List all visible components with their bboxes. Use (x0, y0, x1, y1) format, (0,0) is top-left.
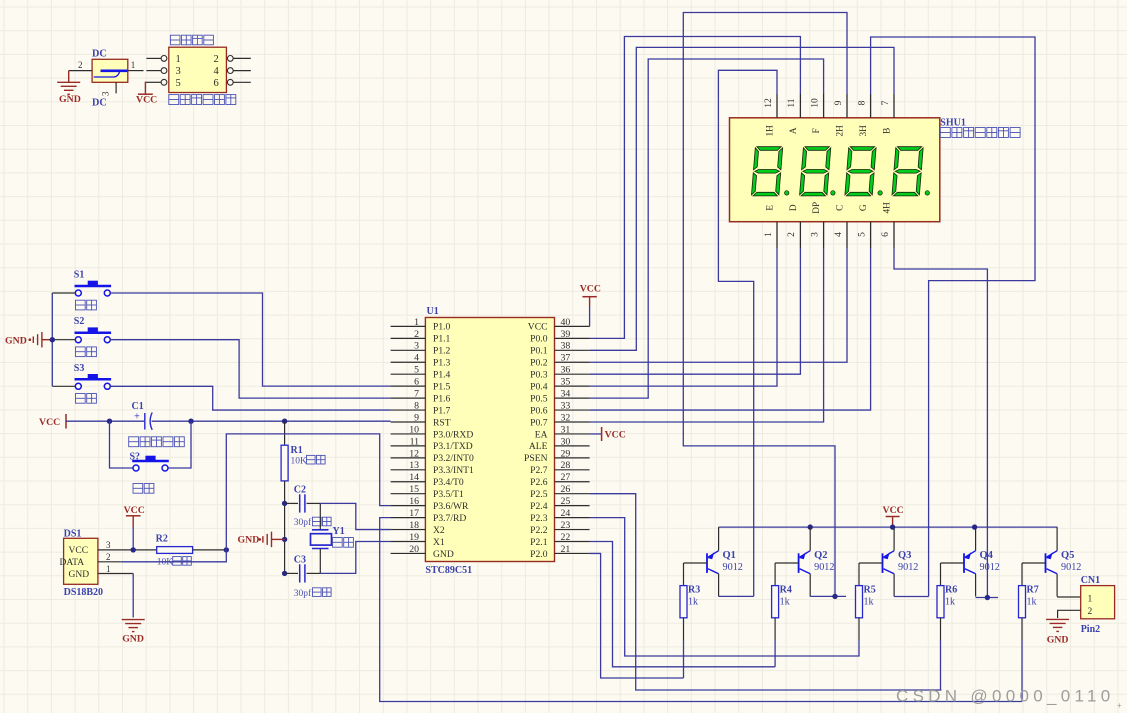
svg-text:1k: 1k (1027, 597, 1037, 608)
switch left pin 3 (146, 70, 161, 72)
svg-text:P1.2: P1.2 (433, 346, 451, 357)
pin 25 P2.4 (555, 505, 590, 507)
pin 15 P3.5/T1 (391, 493, 426, 495)
svg-text:P0.5: P0.5 (530, 393, 548, 404)
pin 4 P1.3 (391, 361, 426, 363)
pin 10 P3.0/RXD (391, 433, 426, 435)
wire D to P0.3 (590, 248, 801, 374)
display decimal point 2 (831, 191, 835, 195)
svg-text:P2.1: P2.1 (530, 537, 548, 548)
svg-text:4: 4 (834, 232, 844, 237)
svg-text:RST: RST (433, 417, 451, 428)
svg-text:EA: EA (535, 429, 548, 440)
wire RST node to pin9 (152, 420, 391, 422)
svg-text:3: 3 (106, 540, 111, 550)
svg-text:R4: R4 (780, 585, 792, 596)
pin 23 P2.2 (555, 529, 590, 531)
svg-text:9012: 9012 (1061, 562, 1081, 573)
pin 34 P0.5 (555, 397, 590, 399)
svg-text:10: 10 (810, 98, 820, 108)
switch left pin 1 (146, 57, 161, 59)
svg-text:1: 1 (176, 54, 181, 65)
svg-text:18: 18 (409, 520, 419, 531)
pin 35 P0.4 (555, 385, 590, 387)
svg-text:A: A (789, 127, 799, 134)
svg-text:9012: 9012 (898, 562, 918, 573)
wire ground rail of crystal caps (284, 503, 286, 573)
svg-text:2H: 2H (836, 125, 846, 137)
svg-text:32: 32 (561, 412, 571, 423)
pin 29 PSEN (555, 457, 590, 459)
transistor Q5 9012 (1045, 553, 1047, 573)
svg-text:P0.0: P0.0 (530, 334, 548, 345)
svg-text:7: 7 (881, 100, 891, 105)
pin 16 P3.6/WR (391, 505, 426, 507)
pin 14 P3.4/T0 (391, 481, 426, 483)
svg-text:1: 1 (1088, 595, 1093, 605)
pin 22 P2.1 (555, 541, 590, 543)
pushbutton S1 (75, 290, 81, 296)
wire Q3 collector to riser (894, 596, 929, 598)
svg-text:U1: U1 (427, 306, 439, 317)
pin 18 X2 (391, 529, 426, 531)
ground GND at CN1 (1046, 618, 1069, 620)
svg-text:F: F (812, 128, 822, 133)
svg-text:9012: 9012 (723, 562, 743, 573)
svg-text:VCC: VCC (124, 505, 145, 516)
svg-text:9012: 9012 (980, 562, 1000, 573)
svg-text:P1.1: P1.1 (433, 334, 451, 345)
pin 6 P1.5 (391, 385, 426, 387)
svg-text:P1.3: P1.3 (433, 358, 451, 369)
wire P2.5 to R6 (590, 494, 942, 690)
svg-text:14: 14 (409, 472, 419, 483)
svg-text:4: 4 (414, 353, 419, 364)
svg-text:VCC: VCC (39, 417, 60, 428)
svg-text:P3.0/RXD: P3.0/RXD (433, 429, 473, 440)
pin 9 RST (391, 421, 426, 423)
svg-text:S2: S2 (74, 316, 85, 327)
svg-text:1k: 1k (945, 597, 955, 608)
svg-text:10K: 10K (157, 558, 174, 568)
crystal Y1 (319, 503, 321, 529)
resistor R2 10K (157, 547, 193, 554)
svg-text:1k: 1k (864, 597, 874, 608)
svg-text:GND: GND (433, 549, 454, 560)
svg-text:33: 33 (561, 400, 571, 411)
display SHU1 4-digit 7-segment (730, 118, 940, 222)
transistor Q3 9012 (882, 553, 884, 573)
svg-text:9012: 9012 (814, 562, 834, 573)
svg-text:6: 6 (881, 232, 891, 237)
switch right pin 4 (233, 70, 251, 72)
svg-text:P3.3/INT1: P3.3/INT1 (433, 465, 474, 476)
wire bus left of buttons (51, 293, 53, 386)
wire S1 to P1.5 (110, 293, 391, 386)
pin 24 P2.3 (555, 517, 590, 519)
svg-text:Q1: Q1 (723, 550, 736, 561)
connector CN1 (1081, 586, 1115, 619)
svg-text:DS1: DS1 (64, 528, 82, 539)
svg-text:P1.5: P1.5 (433, 381, 451, 392)
svg-text:P1.7: P1.7 (433, 405, 451, 416)
svg-text:1k: 1k (688, 597, 698, 608)
svg-text:11: 11 (787, 98, 797, 107)
switch right pin 2 (233, 57, 251, 59)
svg-text:P0.6: P0.6 (530, 405, 548, 416)
svg-text:26: 26 (561, 484, 571, 495)
resistor R3 1k (683, 563, 685, 586)
svg-text:25: 25 (561, 496, 571, 507)
svg-text:P2.6: P2.6 (530, 477, 548, 488)
ground GND below DS1 (132, 574, 134, 618)
resistor R5 1k (858, 563, 860, 586)
svg-text:R7: R7 (1027, 585, 1039, 596)
svg-text:4H: 4H (883, 202, 893, 214)
wire E to P0.4 (590, 248, 777, 386)
pin 27 P2.6 (555, 481, 590, 483)
wire 4H to Q4 collector (894, 248, 987, 598)
svg-text:P0.2: P0.2 (530, 358, 548, 369)
svg-text:34: 34 (561, 389, 571, 400)
pin 30 ALE (555, 445, 590, 447)
pin 3 of DS1 (98, 549, 157, 551)
pushbutton S3 (75, 383, 81, 389)
resistor R6 1k (940, 563, 942, 586)
power VCC at pin31 EA (590, 433, 602, 435)
svg-text:Q5: Q5 (1061, 550, 1074, 561)
svg-text:S?: S? (130, 451, 141, 462)
pin 11 P3.1/TXD (391, 445, 426, 447)
svg-text:9: 9 (834, 100, 844, 105)
wire P3.7 to R7 (380, 518, 1022, 702)
pin 2 of DC (69, 70, 92, 72)
wire VCC to C1 and RST (66, 420, 144, 422)
pin 12 P3.2/INT0 (391, 457, 426, 459)
pin 20 GND (391, 552, 426, 554)
svg-text:P3.5/T1: P3.5/T1 (433, 489, 464, 500)
switch 6-pin self-locking (169, 47, 227, 92)
svg-text:3: 3 (176, 66, 181, 77)
pin 33 P0.6 (555, 409, 590, 411)
resistor R1 10K (284, 421, 286, 445)
svg-text:VCC: VCC (883, 505, 904, 516)
svg-text:2: 2 (78, 60, 83, 70)
svg-text:ALE: ALE (529, 441, 548, 452)
svg-text:P2.7: P2.7 (530, 465, 548, 476)
wire VCC rail of transistors (719, 526, 1058, 528)
power VCC at switch pin5 (145, 82, 146, 94)
pushbutton S2 (75, 337, 81, 343)
svg-text:2: 2 (787, 232, 797, 237)
svg-text:C1: C1 (132, 401, 144, 412)
svg-text:2: 2 (214, 54, 219, 65)
wire P2.0 to R3 (590, 553, 684, 678)
svg-text:R6: R6 (945, 585, 957, 596)
wire B to P0.1 (590, 47, 894, 350)
wire button left lead (52, 292, 75, 294)
display bottom pin 3 DP (823, 222, 825, 248)
svg-text:X2: X2 (433, 525, 445, 536)
ground GND at DC jack (68, 71, 70, 82)
svg-text:GND: GND (5, 335, 27, 346)
pin 40 VCC (555, 325, 590, 327)
pin 1 of DC (128, 70, 144, 72)
svg-text:R5: R5 (864, 585, 876, 596)
svg-text:30pf: 30pf (294, 588, 312, 599)
pin 3 of DC (115, 82, 117, 93)
svg-text:24: 24 (561, 508, 571, 519)
svg-text:R2: R2 (156, 533, 168, 544)
display decimal point 1 (785, 191, 789, 195)
svg-text:17: 17 (409, 508, 419, 519)
display digit 1 (751, 147, 782, 196)
svg-text:30: 30 (561, 436, 571, 447)
wire DATA to DS1 pin2 (121, 550, 227, 562)
pin 21 P2.0 (555, 552, 590, 554)
display bottom pin 4 C (846, 222, 848, 248)
pin 32 P0.7 (555, 421, 590, 423)
svg-text:13: 13 (409, 460, 419, 471)
display digit 4 (892, 147, 923, 196)
svg-text:23: 23 (561, 520, 571, 531)
svg-text:28: 28 (561, 460, 571, 471)
svg-text:9: 9 (414, 412, 419, 423)
svg-text:37: 37 (561, 353, 571, 364)
svg-text:P0.3: P0.3 (530, 370, 548, 381)
display digit 3 (845, 147, 876, 196)
svg-text:P3.6/WR: P3.6/WR (433, 501, 469, 512)
display digit 2 (800, 147, 831, 196)
transistor Q2 9012 (798, 553, 800, 573)
svg-text:PSEN: PSEN (524, 453, 548, 464)
svg-text:E: E (766, 205, 776, 211)
wire G to P0.6 (590, 248, 871, 410)
svg-text:R3: R3 (688, 585, 700, 596)
svg-text:P2.3: P2.3 (530, 513, 548, 524)
pin 37 P0.2 (555, 361, 590, 363)
svg-text:3: 3 (810, 232, 820, 237)
svg-text:P0.7: P0.7 (530, 417, 548, 428)
display top pin 12 1H (776, 94, 778, 118)
svg-text:3: 3 (101, 91, 111, 96)
svg-text:5: 5 (176, 78, 181, 89)
wire P2.3 to R5 (590, 518, 860, 656)
svg-text:12: 12 (764, 98, 774, 108)
display decimal point 3 (878, 191, 882, 195)
svg-text:CSDN @0000_0110: CSDN @0000_0110 (896, 687, 1114, 706)
svg-text:+: + (1117, 701, 1122, 710)
wire DATA to P3.6 pin16 (226, 434, 390, 550)
resistor R7 1k (1021, 563, 1023, 586)
svg-text:S3: S3 (74, 363, 85, 374)
svg-text:VCC: VCC (580, 284, 601, 295)
svg-text:10K: 10K (291, 456, 308, 466)
display top pin 8 3H (870, 94, 872, 118)
display top pin 7 B (893, 94, 895, 118)
svg-text:16: 16 (409, 496, 419, 507)
svg-text:27: 27 (561, 472, 571, 483)
wire S3 to P1.7 (110, 386, 391, 410)
svg-text:DS18B20: DS18B20 (64, 587, 103, 598)
svg-text:4: 4 (214, 66, 220, 77)
power connector DC (92, 59, 128, 82)
pushbutton S? reset (110, 421, 134, 468)
svg-text:1: 1 (106, 564, 111, 574)
pin 1 P1.0 (391, 325, 426, 327)
pin 3 P1.2 (391, 349, 426, 351)
svg-text:3H: 3H (859, 125, 869, 137)
svg-text:15: 15 (409, 484, 419, 495)
svg-text:3: 3 (414, 341, 419, 352)
pin 7 P1.6 (391, 397, 426, 399)
capacitor C2 30pf (285, 502, 298, 504)
svg-text:38: 38 (561, 341, 571, 352)
svg-text:6: 6 (414, 377, 419, 388)
wire 1H to Q1 collector (718, 70, 777, 596)
resistor R4 1k (774, 563, 776, 586)
svg-text:GND: GND (1047, 635, 1069, 646)
transistor Q4 9012 (963, 553, 965, 573)
svg-text:C: C (836, 205, 846, 211)
svg-text:P2.5: P2.5 (530, 489, 548, 500)
pin 31 EA (555, 433, 590, 435)
display bottom pin 5 G (870, 222, 872, 248)
pin 17 P3.7/RD (391, 517, 426, 519)
pin 38 P0.1 (555, 349, 590, 351)
svg-text:P3.7/RD: P3.7/RD (433, 513, 466, 524)
wire X2 to pin18 (320, 503, 390, 529)
svg-text:P1.4: P1.4 (433, 370, 451, 381)
svg-text:10: 10 (409, 424, 419, 435)
svg-text:5: 5 (414, 365, 419, 376)
svg-text:35: 35 (561, 377, 571, 388)
microcontroller U1 STC89C51 (425, 318, 554, 562)
capacitor C3 30pf (285, 572, 298, 574)
svg-text:5: 5 (857, 232, 867, 237)
display top pin 10 F (823, 94, 825, 118)
wire A to P0.0 (590, 37, 801, 339)
wire S2 to P1.6 (110, 340, 391, 398)
svg-text:31: 31 (561, 424, 571, 435)
svg-text:DC: DC (92, 98, 107, 109)
svg-text:VCC: VCC (136, 95, 157, 106)
wire DP to P0.7 (590, 248, 824, 422)
svg-text:C2: C2 (294, 485, 306, 496)
svg-text:D: D (789, 204, 799, 211)
wire F to P0.5 (590, 59, 824, 398)
svg-text:12: 12 (409, 448, 419, 459)
pin 5 P1.4 (391, 373, 426, 375)
svg-text:P0.4: P0.4 (530, 381, 548, 392)
wire 2H to Q2 collector (683, 13, 847, 597)
svg-text:2: 2 (1088, 607, 1093, 617)
svg-text:+: + (134, 412, 140, 423)
svg-text:P3.2/INT0: P3.2/INT0 (433, 453, 474, 464)
display decimal point 4 (925, 191, 929, 195)
svg-text:19: 19 (409, 532, 419, 543)
svg-text:X1: X1 (433, 537, 445, 548)
svg-text:22: 22 (561, 532, 571, 543)
svg-text:Q2: Q2 (814, 550, 827, 561)
display top pin 11 A (799, 94, 801, 118)
svg-text:P1.0: P1.0 (433, 322, 451, 333)
svg-text:G: G (859, 204, 869, 211)
svg-text:6: 6 (214, 78, 219, 89)
svg-text:P2.0: P2.0 (530, 549, 548, 560)
svg-text:8: 8 (414, 400, 419, 411)
svg-text:20: 20 (409, 544, 419, 555)
pin 2 P1.1 (391, 337, 426, 339)
svg-text:P2.2: P2.2 (530, 525, 548, 536)
wire Q5 collector to CN1 pin1 (1057, 596, 1081, 598)
svg-text:R1: R1 (291, 445, 303, 456)
display top pin 9 2H (846, 94, 848, 118)
svg-text:P3.1/TXD: P3.1/TXD (433, 441, 473, 452)
svg-text:1: 1 (764, 232, 774, 237)
wire C to P0.2 (590, 248, 847, 362)
wire Q4 collector to riser (976, 597, 998, 599)
svg-text:P2.4: P2.4 (530, 501, 548, 512)
svg-text:2: 2 (414, 329, 419, 340)
wire X1 to pin19 (320, 542, 390, 574)
svg-text:1: 1 (414, 317, 419, 328)
pin 2 of CN1 to ground (1058, 610, 1081, 618)
svg-text:8: 8 (857, 100, 867, 105)
pin 13 P3.3/INT1 (391, 469, 426, 471)
svg-text:S1: S1 (74, 270, 85, 281)
display bottom pin 1 E (776, 222, 778, 248)
pin 39 P0.0 (555, 337, 590, 339)
svg-text:VCC: VCC (528, 322, 548, 333)
svg-text:DP: DP (812, 202, 822, 214)
svg-text:C3: C3 (294, 554, 306, 565)
wire Q2 collector to riser (810, 595, 846, 597)
pin 19 X1 (391, 541, 426, 543)
pin 28 P2.7 (555, 469, 590, 471)
svg-text:1: 1 (131, 60, 136, 70)
svg-text:DC: DC (92, 49, 107, 60)
transistor Q1 9012 (706, 553, 708, 573)
pin 36 P0.3 (555, 373, 590, 375)
svg-text:11: 11 (410, 436, 420, 447)
svg-text:Q4: Q4 (980, 550, 994, 561)
svg-text:21: 21 (561, 544, 571, 555)
svg-text:P1.6: P1.6 (433, 393, 451, 404)
svg-text:Q3: Q3 (898, 550, 911, 561)
wire button left lead (52, 385, 75, 387)
svg-text:DATA: DATA (60, 558, 85, 568)
svg-text:30pf: 30pf (294, 517, 312, 528)
svg-text:7: 7 (414, 389, 419, 400)
svg-text:39: 39 (561, 329, 571, 340)
svg-text:STC89C51: STC89C51 (425, 565, 472, 576)
svg-text:B: B (883, 128, 893, 134)
pin 1 of DS1 (98, 573, 133, 575)
svg-text:GND: GND (69, 570, 90, 580)
svg-text:2: 2 (106, 552, 111, 562)
pin 26 P2.5 (555, 493, 590, 495)
svg-text:GND: GND (59, 94, 81, 105)
svg-text:P3.4/T0: P3.4/T0 (433, 477, 464, 488)
svg-text:VCC: VCC (69, 546, 89, 556)
power VCC at pin40 (589, 306, 591, 326)
svg-text:1H: 1H (766, 125, 776, 137)
wire button left lead (52, 339, 75, 341)
display bottom pin 6 4H (893, 222, 895, 248)
svg-text:29: 29 (561, 448, 571, 459)
svg-text:Pin2: Pin2 (1081, 624, 1100, 635)
